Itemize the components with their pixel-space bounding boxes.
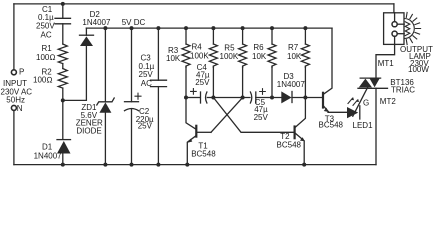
svg-text:TRIAC: TRIAC xyxy=(391,86,415,95)
transistor T1 xyxy=(185,126,211,167)
svg-text:R5: R5 xyxy=(224,43,235,52)
node D C5/R6/D3 xyxy=(270,96,274,100)
wire node A down to T1 collector xyxy=(186,98,196,130)
wire R2 to node xyxy=(62,88,64,100)
capacitor C1 xyxy=(55,4,71,44)
wire top rail down to lamp xyxy=(393,4,395,13)
wire P terminal up to top rail xyxy=(13,4,15,70)
wire node B diagonal down to T2 base xyxy=(213,98,293,133)
svg-text:AC: AC xyxy=(141,79,152,88)
svg-text:LED1: LED1 xyxy=(353,121,374,130)
svg-text:100W: 100W xyxy=(408,65,429,74)
terminal N xyxy=(11,105,16,110)
svg-text:P: P xyxy=(19,68,24,77)
resistor R2 xyxy=(58,69,67,89)
svg-text:MT2: MT2 xyxy=(380,97,397,106)
resistor R4 xyxy=(209,26,217,97)
transistor T2 xyxy=(295,98,307,167)
terminal P xyxy=(11,70,16,75)
resistor R6 xyxy=(268,26,276,97)
diode D3 xyxy=(281,91,322,103)
svg-text:MT1: MT1 xyxy=(378,59,395,68)
wire top rail xyxy=(14,3,394,5)
plus sign C5 xyxy=(260,89,266,95)
svg-text:25V: 25V xyxy=(254,113,269,122)
triac BT136 xyxy=(358,78,388,165)
svg-text:1N4007: 1N4007 xyxy=(34,152,63,161)
node E R7/T2 collector/T3 base xyxy=(303,96,307,100)
svg-text:100Ω: 100Ω xyxy=(36,53,56,62)
resistor R1 xyxy=(58,44,67,64)
svg-text:100K: 100K xyxy=(220,52,239,61)
resistor R3 xyxy=(182,26,190,97)
svg-text:R7: R7 xyxy=(288,43,299,52)
node C C5/T1 base xyxy=(241,96,245,100)
capacitor C5 electrolytic xyxy=(250,92,281,103)
svg-text:25V: 25V xyxy=(138,122,153,131)
svg-text:10K: 10K xyxy=(287,52,302,61)
diode D1 xyxy=(57,100,71,166)
svg-text:AC: AC xyxy=(41,30,52,39)
node A T1 collector xyxy=(184,96,188,100)
svg-text:5V DC: 5V DC xyxy=(122,18,146,27)
capacitor C4 electrolytic xyxy=(201,92,214,103)
svg-text:BC548: BC548 xyxy=(191,149,216,158)
svg-text:DIODE: DIODE xyxy=(76,126,101,135)
junction top rail / C1 xyxy=(61,2,65,6)
svg-text:D1: D1 xyxy=(42,143,53,152)
capacitor C2 electrolytic xyxy=(125,26,139,167)
wire node to D2 anode xyxy=(63,46,87,100)
resistor R5 xyxy=(239,26,247,97)
wire T1 base diagonal up to node C xyxy=(211,98,243,133)
svg-text:N: N xyxy=(17,104,23,113)
diode D2 xyxy=(80,28,94,46)
plus sign C4 xyxy=(191,89,197,95)
wire R1 to R2 xyxy=(62,64,64,69)
wire bottom rail xyxy=(14,164,376,166)
zener diode ZD1 xyxy=(97,26,114,167)
node junction R2/D1/D2 xyxy=(61,98,65,102)
svg-text:R1: R1 xyxy=(42,44,53,53)
lamp holder rectangle xyxy=(384,13,404,45)
svg-text:R4: R4 xyxy=(192,42,203,51)
svg-text:250V: 250V xyxy=(36,21,55,30)
svg-text:10K: 10K xyxy=(166,54,181,63)
svg-text:10K: 10K xyxy=(252,52,267,61)
svg-text:G: G xyxy=(363,98,369,107)
svg-text:25V: 25V xyxy=(195,78,210,87)
svg-text:100K: 100K xyxy=(190,51,209,60)
wire node B to C5 xyxy=(213,97,250,99)
svg-text:100Ω: 100Ω xyxy=(33,75,53,84)
wire 5V DC rail xyxy=(86,27,332,29)
capacitor C3 xyxy=(151,26,167,167)
svg-text:25V: 25V xyxy=(139,70,154,79)
wire N terminal down to bottom rail xyxy=(13,111,15,165)
svg-text:BC548: BC548 xyxy=(319,121,344,130)
LED LED1 xyxy=(347,97,360,119)
svg-text:1N4007: 1N4007 xyxy=(82,18,111,27)
svg-text:BC548: BC548 xyxy=(277,140,302,149)
plus sign C2 xyxy=(135,93,141,99)
wire node A to C4 xyxy=(186,97,200,99)
resistor R7 xyxy=(301,26,309,97)
svg-text:R6: R6 xyxy=(253,43,264,52)
lamp bulb xyxy=(404,12,420,44)
svg-text:1N4007: 1N4007 xyxy=(277,80,306,89)
lamp terminals xyxy=(392,13,404,45)
wire LED cathode up to triac gate xyxy=(353,86,368,116)
wire lamp to triac MT1 xyxy=(376,44,395,77)
transistor T3 xyxy=(323,28,347,112)
node B C4/T2 base xyxy=(211,96,215,100)
